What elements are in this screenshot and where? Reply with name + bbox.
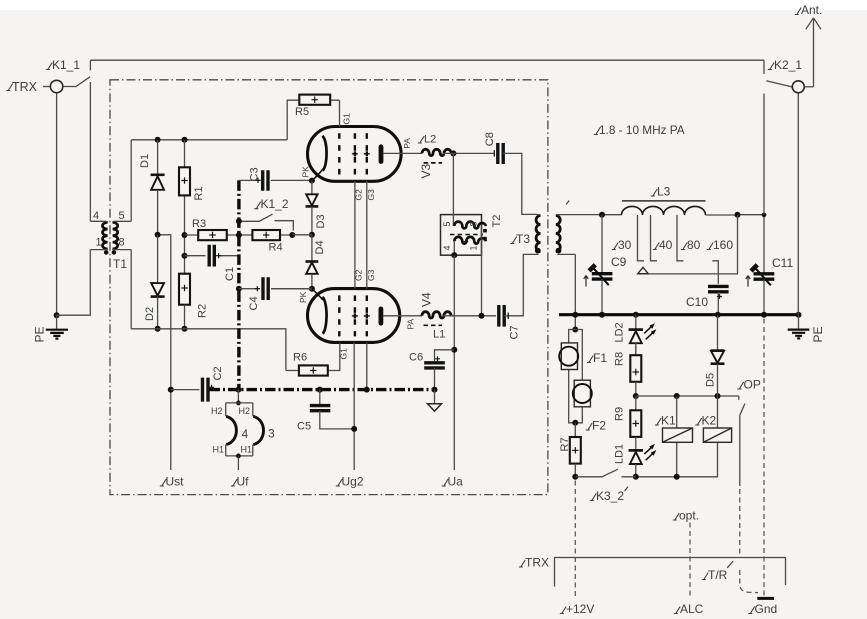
switch K1_1 — [46, 58, 91, 221]
svg-text:opt.: opt. — [679, 509, 699, 523]
resistor R9 — [614, 396, 642, 450]
terminal +12V — [560, 602, 595, 616]
svg-text:4: 4 — [242, 427, 249, 441]
svg-text:D1: D1 — [139, 154, 151, 168]
svg-text:R7: R7 — [559, 437, 571, 451]
vacuum tube V3 — [308, 127, 434, 182]
transformer T1 — [90, 210, 131, 271]
resistor R7 — [559, 420, 581, 477]
wire T1 pin1 to PE node — [57, 250, 91, 316]
ground PE (right) — [788, 315, 825, 343]
svg-text:40: 40 — [659, 238, 673, 252]
svg-text:Ust: Ust — [166, 475, 185, 489]
wire TRX shield to PE — [56, 93, 58, 315]
svg-text:PA: PA — [406, 318, 416, 329]
svg-text:PE: PE — [811, 326, 825, 342]
svg-text:Uf: Uf — [237, 475, 250, 489]
svg-text:LD1: LD1 — [614, 444, 626, 464]
svg-text:LD2: LD2 — [614, 322, 626, 342]
svg-text:R5: R5 — [295, 106, 309, 118]
band tap 40 — [651, 215, 673, 261]
LED LD2 — [614, 315, 657, 356]
svg-text:1: 1 — [96, 237, 102, 249]
dashed lead opt to ALC — [689, 523, 691, 599]
svg-text:8: 8 — [119, 237, 125, 249]
pin PK of V4 — [298, 291, 308, 303]
svg-text:C9: C9 — [611, 255, 627, 269]
node L2 output junction — [443, 150, 494, 156]
svg-text:K2: K2 — [702, 414, 717, 428]
resistor R8 — [614, 342, 642, 396]
svg-text:OP: OP — [744, 378, 761, 392]
node Ug2 test point — [336, 475, 364, 489]
inductor L2 — [418, 134, 451, 163]
svg-text:160: 160 — [713, 238, 733, 252]
diode D4 — [306, 235, 327, 292]
grid bus G2 between tubes and to Ug2 — [354, 181, 364, 470]
svg-text:R4: R4 — [269, 242, 283, 254]
svg-text:K1_2: K1_2 — [261, 197, 289, 211]
wire top bypass net TRX-to-K2_1 — [90, 59, 764, 61]
switch OP — [737, 378, 761, 487]
svg-text:ALC: ALC — [680, 602, 704, 616]
switch K3_2 — [572, 469, 636, 503]
dashed lead to +12V — [574, 481, 576, 598]
svg-text:PK: PK — [298, 291, 308, 303]
svg-text:PE: PE — [33, 326, 47, 342]
capacitor C3 — [239, 167, 312, 190]
variable capacitor C9 — [584, 215, 627, 315]
capacitor C4 — [236, 277, 312, 310]
wire T2 pin4 / Ua feed line — [453, 255, 455, 470]
svg-text:PK: PK — [301, 166, 311, 178]
wire V4 cathode row to C4 — [271, 288, 312, 290]
inductor L3 with band taps — [599, 185, 764, 218]
svg-text:TRX: TRX — [12, 80, 38, 94]
svg-text:R2: R2 — [197, 304, 209, 318]
node Uf test point — [231, 475, 249, 489]
svg-text:L1: L1 — [433, 329, 445, 341]
svg-text:4: 4 — [442, 245, 452, 250]
transformer T2 — [441, 153, 504, 258]
inductor L1 — [422, 312, 451, 341]
svg-text:R6: R6 — [293, 352, 307, 364]
svg-text:L3: L3 — [657, 185, 671, 199]
switch K1_2 — [236, 197, 293, 230]
capacitor C6 — [409, 347, 457, 393]
svg-text:R3: R3 — [192, 218, 206, 230]
heater filaments H (tubes 4 and 3) — [211, 387, 275, 470]
svg-text:4: 4 — [93, 210, 99, 222]
resistor R2 — [179, 274, 209, 332]
wire relay top rail — [633, 393, 739, 399]
pin G1 of V4 — [339, 348, 349, 360]
svg-text:3: 3 — [268, 427, 275, 441]
ground bus (thick) — [559, 313, 799, 316]
capacitor C8 — [484, 132, 537, 214]
svg-text:D5: D5 — [705, 373, 717, 387]
svg-text:+12V: +12V — [566, 602, 594, 616]
diode D2 — [144, 235, 165, 332]
relay coil K1 — [655, 396, 693, 477]
svg-text:8: 8 — [469, 221, 479, 226]
node Ust branch from D1/D2 midpoint — [158, 235, 171, 470]
band tap 80 — [677, 215, 701, 261]
diode D1 — [139, 140, 165, 238]
resistor R4 — [236, 230, 295, 254]
svg-text:T2: T2 — [491, 215, 503, 228]
svg-text:H1: H1 — [213, 445, 225, 455]
pin G1 of V3 — [340, 100, 352, 126]
svg-text:C5: C5 — [297, 421, 311, 433]
svg-text:C1: C1 — [224, 267, 236, 281]
svg-text:R1: R1 — [193, 186, 205, 200]
connector Ant. (top-right) — [795, 3, 823, 87]
svg-text:K3_2: K3_2 — [596, 489, 624, 503]
svg-text:G3: G3 — [366, 269, 376, 281]
label 1.8 - 10 MHz PA — [594, 123, 685, 137]
wire T2 pin1 to anode row — [479, 255, 485, 319]
svg-text:G1: G1 — [342, 113, 352, 125]
chassis shield bus (heavy dash-dot) — [210, 180, 438, 389]
band tap 160 — [707, 238, 734, 284]
svg-text:H2: H2 — [239, 406, 251, 416]
svg-text:R8: R8 — [614, 352, 626, 366]
svg-text:D2: D2 — [144, 307, 156, 321]
node Ua test point — [442, 475, 463, 489]
wire T1 pin8 drop to bias rail — [130, 250, 132, 329]
svg-text:80: 80 — [687, 238, 701, 252]
svg-text:H2: H2 — [211, 406, 223, 416]
svg-text:H1: H1 — [241, 445, 253, 455]
svg-text:C8: C8 — [484, 132, 496, 146]
svg-text:V4: V4 — [420, 292, 434, 307]
svg-text:C2: C2 — [212, 366, 224, 380]
svg-text:T3: T3 — [516, 232, 530, 246]
svg-text:T/R: T/R — [708, 568, 728, 582]
dashed lead OP to T/R switch — [739, 489, 741, 556]
svg-text:Ant.: Ant. — [801, 3, 822, 17]
switch T/R — [702, 561, 758, 592]
resistor R1 — [179, 140, 205, 274]
vacuum tube V4 — [308, 289, 434, 343]
svg-text:D4: D4 — [314, 240, 326, 254]
connector TRX (top-left) — [6, 80, 62, 94]
ground triangle below chassis end — [428, 390, 442, 412]
terminal Gnd — [748, 598, 777, 616]
dashed lead PE bus to Gnd — [763, 319, 765, 597]
svg-text:K2_1: K2_1 — [774, 58, 802, 72]
svg-text:Ug2: Ug2 — [342, 475, 364, 489]
pin PA of V3 — [383, 138, 422, 154]
svg-text:PA: PA — [402, 138, 412, 149]
svg-text:5: 5 — [119, 210, 125, 222]
svg-text:TRX: TRX — [525, 556, 549, 570]
svg-text:C7: C7 — [509, 325, 521, 339]
svg-text:C11: C11 — [772, 256, 793, 270]
svg-text:V3: V3 — [419, 163, 433, 178]
terminal ALC — [674, 602, 704, 616]
wire input row (grid feed) — [131, 139, 287, 141]
transformer T3 — [510, 215, 602, 255]
svg-text:F2: F2 — [592, 419, 606, 433]
svg-text:G3: G3 — [366, 189, 376, 201]
svg-text:G2: G2 — [354, 189, 364, 201]
diode D5 — [705, 315, 725, 396]
capacitor C10 — [686, 286, 729, 314]
capacitor C1 — [182, 245, 239, 281]
label opt. — [673, 509, 699, 523]
svg-text:C6: C6 — [409, 352, 423, 364]
ground PE (bottom-left) — [33, 312, 69, 342]
svg-text:G1: G1 — [339, 348, 349, 360]
wire bias rail (T1 pin8 / D2 / R2 to R6) — [131, 329, 286, 371]
svg-text:F1: F1 — [593, 351, 607, 365]
wire T1 pin5 riser to input row — [130, 140, 132, 222]
small stray tick near T3 top — [566, 201, 569, 205]
wire K2_1 common to right PE bus — [797, 93, 799, 315]
connector bracket TRX (bottom) — [519, 556, 786, 587]
svg-text:C3: C3 — [249, 167, 261, 181]
lamp F2 — [573, 380, 607, 432]
resistor R5 — [287, 95, 339, 140]
svg-text:T1: T1 — [113, 257, 127, 271]
wire T3 secondary bottom to chassis bus and F1 branch — [574, 254, 576, 329]
capacitor C2 — [168, 366, 224, 401]
node Ust test point — [160, 475, 184, 489]
band selector wiper line — [638, 215, 738, 274]
enclosure dash-dot boundary box — [110, 80, 548, 495]
svg-text:5: 5 — [442, 221, 452, 226]
lamp F1 — [559, 327, 607, 423]
svg-text:D3: D3 — [315, 214, 327, 228]
svg-text:K1_1: K1_1 — [52, 58, 80, 72]
variable capacitor C11 — [746, 213, 794, 315]
grid bus G3 between tubes and to chassis — [364, 181, 376, 393]
wire anode row through L1 to C7 — [443, 315, 496, 317]
capacitor C5 — [297, 387, 357, 433]
relay coil K2 — [633, 396, 732, 480]
svg-text:30: 30 — [618, 238, 632, 252]
svg-text:Gnd: Gnd — [755, 602, 778, 616]
svg-text:Ua: Ua — [448, 475, 464, 489]
resistor R6 — [286, 342, 340, 375]
wire K1_2/R4 node to D3/D4 node — [292, 234, 312, 236]
svg-text:G2: G2 — [354, 269, 364, 281]
svg-text:1.8 - 10 MHz PA: 1.8 - 10 MHz PA — [599, 123, 685, 137]
svg-text:C10: C10 — [686, 295, 708, 309]
pin PK of V3 — [301, 166, 315, 184]
diode D3 — [306, 181, 328, 238]
band tap 30 — [612, 215, 644, 261]
LED LD1 — [614, 444, 657, 477]
svg-text:R9: R9 — [614, 407, 626, 421]
pin PA of V4 and anode row — [383, 316, 422, 330]
resistor R3 — [182, 218, 239, 240]
switch K2_1 — [764, 58, 814, 215]
svg-text:K1: K1 — [661, 414, 676, 428]
svg-text:1: 1 — [469, 245, 479, 250]
capacitor C7 — [499, 254, 537, 339]
svg-text:C4: C4 — [248, 296, 260, 310]
svg-text:L2: L2 — [424, 134, 436, 146]
